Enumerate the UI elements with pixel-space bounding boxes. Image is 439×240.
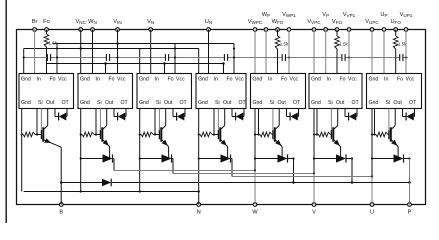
svg-text:Fo: Fo [168,76,174,82]
phase bus V (gray) [173,172,315,174]
resistor R-Fo 1.5k [44,30,58,64]
wire Gnd box2 to N bus [80,109,82,193]
svg-text:1.5k: 1.5k [49,41,58,46]
capacitor C6 [342,54,350,61]
freewheel diode D3 [139,154,173,162]
wire collector box1 [44,109,48,130]
svg-text:VN: VN [147,19,154,25]
svg-text:VFO: VFO [332,19,343,25]
svg-text:W: W [252,210,258,216]
wire collector to P line [351,159,354,184]
svg-text:P: P [408,210,412,216]
phase bus W (gray) [114,169,256,171]
wire collector to phase bus [172,159,174,174]
wire Fo drop box1 [46,64,48,74]
wire U drop [371,177,373,205]
svg-text:WFO: WFO [272,19,284,25]
wire VVPC to box6 Gnd [313,30,315,74]
wire Out box2 to gate [99,109,101,133]
wire VP to box6 In [325,30,327,74]
terminal N [197,203,201,216]
wire input WN [92,30,94,74]
svg-text:UP: UP [380,12,387,18]
resistor Rg2 [80,132,101,137]
capacitor C4 [224,54,235,61]
module outline [17,30,426,205]
resistor R-VFO 1.5k [335,30,349,74]
temp sense diode D4t [232,109,244,121]
svg-text:V: V [312,210,316,216]
svg-text:Si: Si [156,100,161,106]
wire input UN [208,30,210,74]
resistor Rg7 [371,132,389,137]
svg-text:Si: Si [386,100,391,106]
terminal Br [32,19,38,31]
svg-text:Si: Si [97,100,102,106]
wire VIN to Vcc bus [116,30,119,74]
svg-text:Vcc: Vcc [235,76,244,82]
svg-text:Si: Si [328,100,333,106]
driver IC U7 [367,74,422,109]
resistor R-UFO 1.5k [393,30,407,74]
wire collector box6 [334,109,338,130]
wire collector box4 [221,109,225,130]
terminal VNC [75,19,86,31]
terminal VWPI [282,12,296,32]
svg-text:Fo: Fo [340,76,346,82]
svg-text:Out: Out [336,100,345,106]
svg-text:VNC: VNC [75,19,86,25]
freewheel diode D2 [80,154,114,162]
driver IC U4 [196,74,247,109]
transistor Q2 [100,127,109,146]
P line [61,181,411,184]
terminal U [370,203,374,216]
svg-text:Si: Si [270,100,275,106]
svg-text:Gnd: Gnd [369,76,379,82]
wire collector to P line [292,159,295,184]
transistor Q1 [41,127,61,147]
wire V drop [313,174,315,205]
svg-text:Out: Out [105,100,114,106]
svg-text:Br: Br [32,19,38,25]
terminal VN [147,19,154,31]
svg-text:Fo: Fo [397,76,403,82]
svg-text:VVP1: VVP1 [343,12,356,18]
wire emitter Q3 [168,147,170,159]
wire emitter Q6 [340,147,342,159]
wire Fo drop box4 [222,62,225,73]
wire Gnd box5 to phase bus [254,109,256,171]
svg-text:Fo: Fo [50,76,56,82]
transistor Q7 [389,127,398,146]
svg-text:WN: WN [88,19,97,25]
brake diode D8 [102,179,111,187]
wire W drop [254,171,256,205]
svg-text:OT: OT [180,100,188,106]
svg-text:1.5k: 1.5k [280,42,289,47]
temp sense diode D3t [173,109,185,121]
terminal VIN [113,19,121,31]
capacitor rail (gray) [23,56,408,58]
wire Out box4 to gate [217,109,219,133]
terminal B [59,203,63,216]
svg-text:VVPC: VVPC [307,19,321,25]
wire collector box5 [275,109,279,130]
driver IC U3 [137,74,192,109]
wire Si box7 [373,109,375,136]
terminal UN [205,19,212,31]
svg-text:Vcc: Vcc [290,76,299,82]
wire collector box7 [391,109,395,130]
terminal P [408,203,412,216]
svg-text:Gnd: Gnd [253,100,263,106]
transistor Q5 [273,127,282,146]
svg-text:In: In [214,76,218,82]
wire Gnd drop box1 [23,49,25,74]
svg-text:Gnd: Gnd [139,100,149,106]
wire VNC to Gnd bus [79,30,82,50]
svg-text:Fo: Fo [43,19,50,25]
wire collector to phase bus [231,159,233,177]
Fo bus [47,63,224,65]
wire collector box3 [162,109,166,130]
wire WP to box5 In [265,30,267,74]
driver IC U2 [78,74,133,109]
page border line (left) [5,0,7,223]
svg-text:1.5k: 1.5k [339,42,348,47]
wire P drop (gray) [409,183,411,205]
svg-text:Vcc: Vcc [117,76,126,82]
wire Vcc drop box1 [56,44,58,74]
svg-text:Gnd: Gnd [369,100,379,106]
capacitor C1 [47,54,58,61]
Vcc bus [53,43,235,45]
svg-text:Vcc: Vcc [348,76,357,82]
wire Gnd drop box4 [198,49,200,74]
terminal VVPC [307,19,321,31]
svg-text:In: In [327,76,331,82]
svg-text:Gnd: Gnd [198,76,208,82]
wire UP to box7 In [383,30,385,74]
wire VUP1 to box7 Vcc [405,30,407,74]
terminal WFO [272,19,284,31]
terminal Fo [43,19,50,31]
svg-text:In: In [384,76,388,82]
wire Si box2 [95,109,97,136]
driver IC U5 [251,74,306,109]
terminal VP [322,12,329,32]
svg-text:Vcc: Vcc [406,76,415,82]
transistor Q6 [331,127,340,146]
svg-text:Gnd: Gnd [311,76,321,82]
Gnd bus [24,48,199,50]
N bus [24,191,199,193]
svg-text:Gnd: Gnd [80,76,90,82]
wire Si box5 [257,109,259,136]
terminal VFO [332,19,343,31]
svg-text:Gnd: Gnd [80,100,90,106]
wire emitter Q2 [109,147,111,159]
svg-text:Gnd: Gnd [21,76,31,82]
svg-text:Vcc: Vcc [58,76,67,82]
wire collector box2 [103,109,107,130]
wire emitter Q4 [227,147,229,159]
temp sense diode D5t [287,109,299,121]
wire Out box1 to gate [40,109,42,133]
wire Gnd box1 to N bus [21,109,23,192]
wire collector to P line [409,159,411,183]
svg-text:U: U [370,210,374,216]
terminal VUPC [365,19,379,31]
transistor Q4 [218,127,227,146]
svg-text:Gnd: Gnd [311,100,321,106]
wire Vcc drop box3 [174,44,176,74]
terminal WN [88,19,97,31]
svg-text:Gnd: Gnd [139,76,149,82]
svg-text:Si: Si [215,100,220,106]
terminal VWPC [248,19,263,31]
svg-text:Out: Out [278,100,287,106]
terminal WP [262,12,270,32]
svg-text:B: B [59,210,63,216]
svg-text:N: N [197,210,201,216]
wire Fo drop box3 [163,62,166,73]
wire VUPC to box7 Gnd [371,30,373,74]
resistor Rg1 [21,132,42,137]
wire Out box7 to gate [388,109,390,133]
driver IC U1 [19,74,74,109]
capacitor C7 [400,54,407,61]
freewheel diode D6 [313,154,353,162]
wire Gnd box6 to phase bus [313,109,315,174]
wire Fo drop box2 [104,62,107,73]
wire Out box6 to gate [330,109,332,133]
wire emitter Q1 to B [60,147,63,204]
svg-text:Fo: Fo [227,76,233,82]
resistor Rg5 [254,132,273,137]
svg-text:OT: OT [239,100,247,106]
svg-text:Fo: Fo [109,76,115,82]
svg-text:WP: WP [262,12,270,18]
capacitor C5 [282,54,290,61]
wire Vcc drop box4 [233,44,235,74]
wire input VN [150,30,152,74]
wire Si box6 [316,109,318,136]
wire VVP1 to box6 Vcc [348,30,350,74]
wire emitter Q7 [397,147,399,159]
svg-text:Out: Out [46,100,55,106]
capacitor C2 [106,54,118,61]
wire Gnd box3 to N bus [139,109,141,193]
svg-text:Out: Out [164,100,173,106]
wire Gnd box4 to N bus [198,109,200,193]
wire Si box3 [154,109,156,136]
resistor Rg4 [198,132,219,137]
terminal UFO [390,19,401,31]
terminal W [252,203,258,216]
svg-text:In: In [37,76,41,82]
wire N drop [198,190,200,204]
transistor Q3 [159,127,168,146]
wire emitter Q5 [281,147,283,159]
wire Gnd box7 to phase bus [371,109,373,177]
svg-text:VUP1: VUP1 [400,12,413,18]
svg-text:VWP1: VWP1 [282,12,296,18]
temp sense diode D2t [114,109,126,121]
resistor Rg3 [139,132,160,137]
svg-text:Gnd: Gnd [21,100,31,106]
svg-text:OT: OT [62,100,70,106]
svg-text:Gnd: Gnd [198,100,208,106]
svg-text:UFO: UFO [390,19,401,25]
temp sense diode D6t [345,109,357,121]
wire Si box4 [213,109,215,136]
svg-text:Out: Out [223,100,232,106]
svg-text:VUPC: VUPC [365,19,379,25]
wire Si box1 [36,109,38,136]
wire Gnd drop box2 [80,49,82,74]
svg-text:Si: Si [38,100,43,106]
wire VWP1 to box5 Vcc [288,30,290,74]
wire Out box5 to gate [272,109,274,133]
svg-text:UN: UN [205,19,212,25]
freewheel diode D4 [198,154,232,162]
svg-text:OT: OT [121,100,129,106]
svg-text:VIN: VIN [113,19,121,25]
svg-text:VWPC: VWPC [248,19,263,25]
terminal UP [380,12,387,32]
svg-text:Fo: Fo [281,76,287,82]
wire VWPC to box5 Gnd [254,30,256,74]
svg-text:Vcc: Vcc [176,76,185,82]
svg-text:OT: OT [409,100,417,106]
svg-text:Out: Out [394,100,403,106]
svg-text:OT: OT [293,100,301,106]
wire collector to phase bus [113,159,115,171]
svg-text:Gnd: Gnd [253,76,263,82]
svg-text:In: In [96,76,100,82]
driver IC U6 [309,74,362,109]
capacitor C3 [165,54,176,61]
freewheel diode D7 [371,154,411,162]
phase bus U (gray) [232,175,373,177]
wire Out box3 to gate [158,109,160,133]
wire Gnd drop box3 [139,49,141,74]
svg-text:In: In [268,76,272,82]
resistor R-WFO 1.5k [275,30,289,74]
svg-text:In: In [155,76,159,82]
wire input Br [34,30,36,74]
terminal V [312,203,316,216]
temp sense diode D1t [55,109,67,121]
svg-text:OT: OT [352,100,360,106]
terminal VUPI [400,12,413,32]
temp sense diode D7t [403,109,415,121]
freewheel diode D5 [254,154,295,162]
resistor Rg6 [313,132,332,137]
terminal VVPI [343,12,356,32]
svg-text:VP: VP [322,12,329,18]
